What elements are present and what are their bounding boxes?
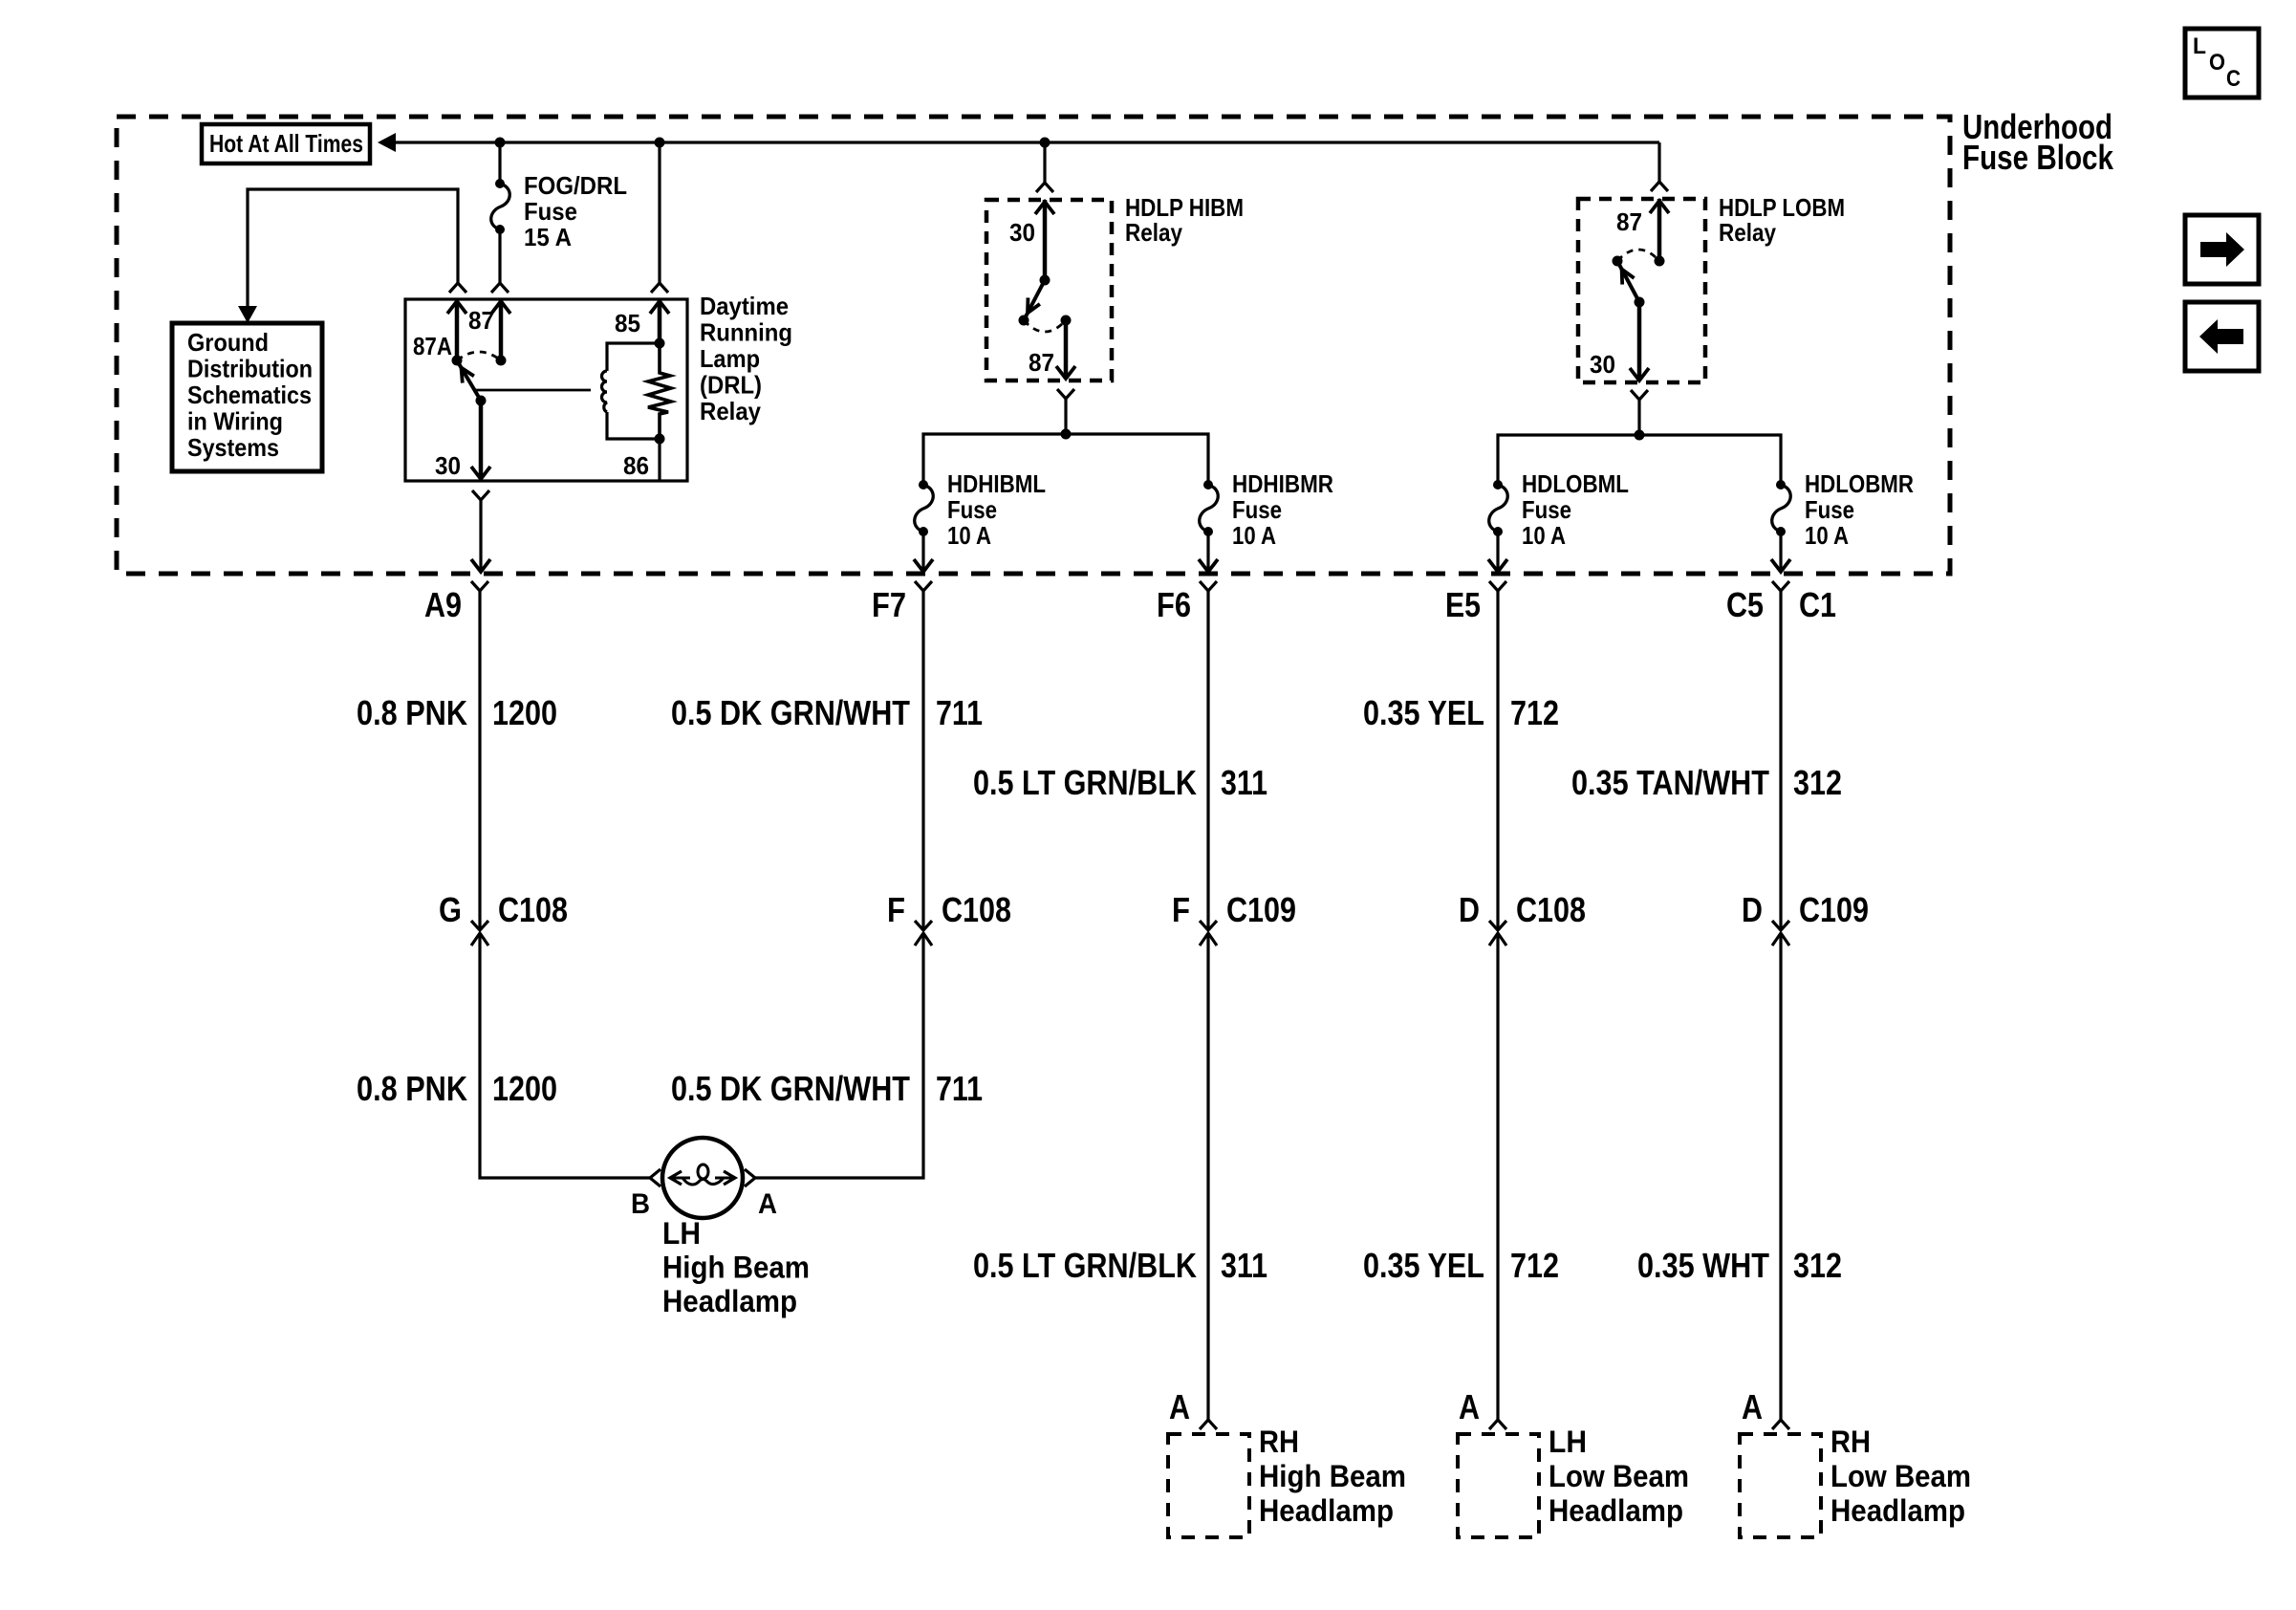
svg-text:C108: C108 <box>942 890 1011 929</box>
svg-text:87: 87 <box>1616 207 1642 236</box>
svg-text:711: 711 <box>936 1069 983 1108</box>
svg-text:Fuse: Fuse <box>1522 495 1571 524</box>
connector C108 pin F <box>915 921 932 930</box>
Hot At All Times box <box>202 124 370 163</box>
svg-text:10 A: 10 A <box>947 521 991 550</box>
dashed arc HIBM relay throw <box>1024 320 1066 332</box>
node F7 <box>915 581 932 591</box>
svg-text:A: A <box>758 1188 777 1220</box>
svg-text:0.8 PNK: 0.8 PNK <box>357 693 467 732</box>
wire C1 to RH low beam headlamp <box>1779 946 1782 1420</box>
svg-text:High Beam: High Beam <box>662 1251 810 1285</box>
svg-text:D: D <box>1742 890 1763 929</box>
battery feed bus wire <box>392 141 1659 143</box>
svg-text:0.35 YEL: 0.35 YEL <box>1363 693 1484 732</box>
wire HDLOBMR fuse to edge C5 <box>1779 532 1782 569</box>
svg-text:30: 30 <box>1590 350 1615 379</box>
headlamp RH High Beam dashed box <box>1168 1434 1249 1537</box>
svg-text:A: A <box>1169 1387 1190 1426</box>
svg-text:C108: C108 <box>498 890 568 929</box>
wire HDLOBML fuse to edge E5 <box>1496 532 1499 569</box>
svg-text:30: 30 <box>1009 218 1035 247</box>
svg-text:Headlamp: Headlamp <box>1549 1493 1683 1528</box>
svg-text:Fuse: Fuse <box>947 495 997 524</box>
svg-text:Relay: Relay <box>700 397 761 425</box>
svg-text:D: D <box>1459 890 1480 929</box>
svg-text:712: 712 <box>1510 693 1559 732</box>
pin 87 of HIBM relay <box>1064 320 1069 379</box>
svg-text:O: O <box>2209 50 2225 76</box>
svg-text:1200: 1200 <box>492 1069 557 1108</box>
wire DRL pin 30 to fuse block edge A9 <box>472 490 489 500</box>
svg-text:0.5 DK GRN/WHT: 0.5 DK GRN/WHT <box>671 1069 910 1108</box>
svg-text:Relay: Relay <box>1125 218 1182 247</box>
svg-text:0.8 PNK: 0.8 PNK <box>357 1069 467 1108</box>
svg-text:0.35 WHT: 0.35 WHT <box>1637 1246 1769 1285</box>
wire bus to DRL relay pin 85 <box>658 142 661 283</box>
svg-text:Low Beam: Low Beam <box>1830 1459 1971 1493</box>
wire bus to HIBM relay pin 30 <box>1043 142 1046 183</box>
svg-text:30: 30 <box>435 451 461 480</box>
svg-text:0.35 TAN/WHT: 0.35 TAN/WHT <box>1571 763 1769 802</box>
svg-text:Fuse Block: Fuse Block <box>1962 138 2114 177</box>
underhood fuse block dashed border <box>117 117 1950 574</box>
dashed link armature to coil <box>475 389 591 392</box>
relay HDLP LOBM dashed box <box>1578 199 1705 382</box>
wire C1 down <box>1779 591 1782 930</box>
svg-text:F: F <box>1172 890 1190 929</box>
connector C109 pin F <box>1200 921 1217 930</box>
fuse HDLOBML 10 A <box>1493 480 1503 490</box>
pin 87 of LOBM relay <box>1657 199 1662 261</box>
wire F7 leg to LH high beam headlamp <box>755 946 923 1178</box>
svg-text:Headlamp: Headlamp <box>1830 1493 1965 1528</box>
svg-text:15 A: 15 A <box>524 223 572 251</box>
wire A9 down <box>478 591 481 930</box>
svg-text:86: 86 <box>623 451 649 480</box>
wire LOBM switch to pin 30 <box>1637 302 1642 381</box>
svg-text:F7: F7 <box>872 585 906 624</box>
wire LOBM pin 30 to low-beam fuses <box>1631 390 1648 400</box>
svg-text:Relay: Relay <box>1719 218 1776 247</box>
svg-text:85: 85 <box>615 309 640 337</box>
svg-text:311: 311 <box>1221 763 1267 802</box>
svg-text:Systems: Systems <box>187 433 279 462</box>
svg-text:711: 711 <box>936 693 983 732</box>
switch armature LOBM relay <box>1617 261 1639 302</box>
headlamp LH Low Beam dashed box <box>1458 1434 1539 1537</box>
svg-text:0.35 YEL: 0.35 YEL <box>1363 1246 1484 1285</box>
back arrow box <box>2185 302 2259 371</box>
svg-text:A: A <box>1742 1387 1763 1426</box>
svg-text:Ground: Ground <box>187 328 269 357</box>
Ground Distribution Schematics box <box>172 323 322 471</box>
dashed arc LOBM relay throw <box>1617 250 1659 261</box>
wire ground distribution to DRL relay pin 87 <box>248 189 458 308</box>
pin 85 of DRL relay <box>658 299 662 343</box>
svg-text:High Beam: High Beam <box>1259 1459 1406 1493</box>
wire HDHIBMR fuse to edge F6 <box>1206 532 1209 569</box>
svg-text:Fuse: Fuse <box>1805 495 1854 524</box>
svg-text:RH: RH <box>1259 1425 1299 1459</box>
svg-text:F6: F6 <box>1157 585 1191 624</box>
svg-text:87: 87 <box>468 306 494 335</box>
wire DRL switch to pin 30 <box>479 401 484 479</box>
svg-text:1200: 1200 <box>492 693 557 732</box>
switch armature DRL relay <box>457 360 481 401</box>
svg-text:in Wiring: in Wiring <box>187 407 283 436</box>
svg-text:Headlamp: Headlamp <box>1259 1493 1394 1528</box>
svg-text:10 A: 10 A <box>1805 521 1849 550</box>
wire HIBM pin 87 to high-beam fuses <box>1057 389 1074 399</box>
node bus junction at DRL relay pin 85 <box>655 138 665 148</box>
svg-text:Hot At All Times: Hot At All Times <box>209 129 363 158</box>
fuse FOG/DRL 15 A <box>495 179 505 188</box>
svg-text:LH: LH <box>1549 1425 1587 1459</box>
svg-text:LH: LH <box>662 1216 701 1251</box>
svg-text:C: C <box>2226 66 2241 92</box>
switch armature HIBM relay <box>1024 280 1045 320</box>
pin 30 of HIBM relay <box>1043 200 1048 280</box>
svg-text:RH: RH <box>1830 1425 1871 1459</box>
wire F6 to RH high beam headlamp <box>1206 946 1209 1420</box>
svg-text:C5: C5 <box>1726 585 1764 624</box>
svg-text:FOG/DRL: FOG/DRL <box>524 171 627 200</box>
svg-text:10 A: 10 A <box>1522 521 1566 550</box>
pin 86 of DRL relay <box>658 439 661 481</box>
svg-text:(DRL): (DRL) <box>700 371 762 400</box>
svg-text:Fuse: Fuse <box>524 197 577 226</box>
wire E5 to LH low beam headlamp <box>1496 946 1499 1420</box>
node C5 C1 <box>1772 581 1789 591</box>
svg-text:311: 311 <box>1221 1246 1267 1285</box>
wire bus corner down to HDLP LOBM relay <box>1657 142 1660 182</box>
svg-text:HDHIBMR: HDHIBMR <box>1232 469 1333 498</box>
svg-text:Headlamp: Headlamp <box>662 1284 797 1318</box>
svg-text:G: G <box>439 890 462 929</box>
connector C108 pin D <box>1489 921 1506 930</box>
svg-text:87: 87 <box>1029 348 1054 377</box>
wire FOG/DRL fuse to DRL relay <box>498 229 501 283</box>
wire high beam fuse feed <box>923 434 1208 485</box>
svg-text:87A: 87A <box>413 332 452 360</box>
forward arrow box <box>2185 215 2259 284</box>
wire low beam fuse feed <box>1498 435 1781 485</box>
connector C108 pin G <box>471 921 488 930</box>
svg-text:712: 712 <box>1510 1246 1559 1285</box>
svg-text:C109: C109 <box>1799 890 1869 929</box>
svg-text:B: B <box>631 1188 650 1220</box>
svg-text:0.5 DK GRN/WHT: 0.5 DK GRN/WHT <box>671 693 910 732</box>
svg-text:Fuse: Fuse <box>1232 495 1282 524</box>
svg-text:10 A: 10 A <box>1232 521 1276 550</box>
svg-text:HDLOBMR: HDLOBMR <box>1805 469 1914 498</box>
LOC reference box <box>2185 29 2259 98</box>
svg-text:Distribution: Distribution <box>187 355 313 383</box>
resistor inside DRL relay <box>648 343 671 439</box>
svg-text:Lamp: Lamp <box>700 344 760 373</box>
svg-text:C1: C1 <box>1799 585 1836 624</box>
svg-text:0.5 LT GRN/BLK: 0.5 LT GRN/BLK <box>973 1246 1197 1285</box>
svg-text:A9: A9 <box>424 585 462 624</box>
svg-text:C109: C109 <box>1226 890 1296 929</box>
svg-text:Running: Running <box>700 318 792 347</box>
svg-text:L: L <box>2193 33 2206 59</box>
headlamp RH Low Beam dashed box <box>1740 1434 1821 1537</box>
connector C109 pin D <box>1772 921 1789 930</box>
wire F6 down <box>1206 591 1209 930</box>
relay HDLP HIBM dashed box <box>986 200 1112 381</box>
svg-text:A: A <box>1459 1387 1480 1426</box>
coil of DRL relay <box>602 371 607 412</box>
node F6 <box>1200 581 1217 591</box>
svg-text:Daytime: Daytime <box>700 292 789 320</box>
pin from FOG/DRL fuse into DRL relay <box>499 299 504 360</box>
wire F7 down <box>921 591 924 930</box>
svg-text:HDLOBML: HDLOBML <box>1522 469 1629 498</box>
svg-text:HDHIBML: HDHIBML <box>947 469 1046 498</box>
fuse HDHIBMR 10 A <box>1203 480 1213 490</box>
svg-text:C108: C108 <box>1516 890 1586 929</box>
wire HDHIBML fuse to edge F7 <box>921 532 924 569</box>
svg-text:312: 312 <box>1793 763 1842 802</box>
svg-text:312: 312 <box>1793 1246 1842 1285</box>
wire E5 down <box>1496 591 1499 930</box>
svg-text:E5: E5 <box>1445 585 1481 624</box>
dashed arc DRL relay throw <box>457 352 501 360</box>
relay DRL box <box>405 299 687 481</box>
svg-text:Low Beam: Low Beam <box>1549 1459 1689 1493</box>
svg-text:Schematics: Schematics <box>187 381 312 409</box>
svg-text:F: F <box>887 890 905 929</box>
node A9 <box>471 581 488 591</box>
wire bus to FOG/DRL fuse <box>498 142 501 184</box>
lamp LH High Beam Headlamp <box>662 1138 743 1218</box>
node bus junction at HDLP HIBM relay <box>1040 138 1051 148</box>
node E5 <box>1489 581 1506 591</box>
pin 87 of DRL relay <box>455 299 460 360</box>
wire A9 leg to LH high beam headlamp <box>480 946 650 1178</box>
fuse HDLOBMR 10 A <box>1776 480 1786 490</box>
fuse HDHIBML 10 A <box>919 480 928 490</box>
node bus junction at FOG/DRL fuse <box>495 138 506 148</box>
svg-text:0.5 LT GRN/BLK: 0.5 LT GRN/BLK <box>973 763 1197 802</box>
